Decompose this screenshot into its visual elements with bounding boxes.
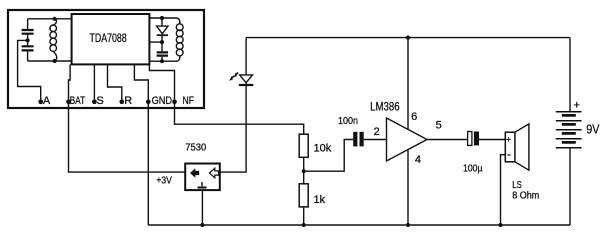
wire speaker to ground <box>501 155 506 225</box>
IC TDA7088 <box>72 14 150 64</box>
wire BAT to regulator <box>69 103 186 173</box>
node R divider <box>302 169 306 173</box>
node 1k ground <box>302 223 306 227</box>
wire pin6 <box>407 38 409 130</box>
node varicap top <box>160 16 164 20</box>
node C3 bottom <box>160 59 164 63</box>
pin A <box>38 99 43 104</box>
wire top-right (IC to right tank) <box>149 17 176 19</box>
node pin4 ground <box>406 223 410 227</box>
svg-text:9V: 9V <box>586 121 599 136</box>
svg-text:100µ: 100µ <box>463 163 483 175</box>
wire regulator to ground rail <box>201 190 203 225</box>
wire pin5 out <box>427 139 468 141</box>
wire 1k to ground <box>303 207 305 225</box>
resistor 1k <box>299 184 308 207</box>
svg-text:R: R <box>124 95 132 107</box>
wire bottom-right <box>149 60 176 62</box>
node regulator ground <box>200 223 204 227</box>
svg-text:6: 6 <box>411 111 417 123</box>
wire top-left (tank top) <box>28 18 72 20</box>
regulator arrow in (outline) <box>209 168 218 178</box>
svg-text:1k: 1k <box>314 194 326 206</box>
svg-text:GND: GND <box>152 95 173 107</box>
svg-text:BAT: BAT <box>70 95 86 107</box>
capacitor C3 <box>161 42 163 51</box>
node L1 bottom <box>53 59 57 63</box>
trimmer capacitor C1 (upper) <box>27 19 29 30</box>
svg-text:+: + <box>506 135 511 145</box>
svg-text:5: 5 <box>436 120 442 132</box>
regulator 7530 <box>185 164 220 191</box>
node top rail / pin6 <box>406 36 410 40</box>
node varicap mid <box>160 40 164 44</box>
wire 100u to speaker <box>479 139 505 141</box>
wire pin4 <box>407 150 409 225</box>
resistor 10k <box>299 134 308 157</box>
pin S <box>92 99 97 104</box>
LED arrow 2 <box>232 76 234 78</box>
svg-text:7530: 7530 <box>185 143 206 154</box>
LED wire <box>220 38 246 173</box>
battery plates <box>556 112 582 148</box>
svg-text:+3V: +3V <box>156 176 172 187</box>
svg-text:A: A <box>43 95 51 107</box>
capacitor 100n <box>353 132 357 147</box>
wire 10k to 1k <box>303 157 305 184</box>
svg-text:8 Ohm: 8 Ohm <box>512 189 539 201</box>
op-amp LM386 <box>387 118 428 161</box>
pin BAT <box>66 99 71 104</box>
coil L2 <box>177 18 180 24</box>
module box (tuner module outline) <box>8 10 204 108</box>
pin stub BAT <box>69 64 71 102</box>
pin R <box>119 99 124 104</box>
wire divider to 100n <box>304 140 354 172</box>
top supply rail <box>246 37 570 39</box>
node between C1/C2 <box>26 38 30 42</box>
node speaker ground <box>498 223 502 227</box>
wire NF to 10k <box>175 103 304 135</box>
wire mid-right (IC to varicap node) <box>149 41 162 43</box>
svg-text:10k: 10k <box>314 143 332 155</box>
speaker - <box>507 154 510 156</box>
svg-text:NF: NF <box>183 95 195 107</box>
svg-text:TDA7088: TDA7088 <box>90 33 127 45</box>
capacitor 100u (electrolytic) <box>468 132 472 146</box>
coil L1 <box>54 19 57 25</box>
trimmer capacitor C2 (lower) <box>27 34 29 47</box>
wire GND down <box>147 103 149 226</box>
LED D2 <box>240 75 253 83</box>
pin stub GND <box>134 64 148 102</box>
pin stub S <box>93 64 95 102</box>
pin GND <box>146 99 151 104</box>
node L1 top <box>53 17 57 21</box>
svg-text:LM386: LM386 <box>370 102 400 114</box>
wire tap to pin A <box>18 40 41 102</box>
svg-text:100n: 100n <box>338 115 358 127</box>
battery 9V <box>569 38 571 112</box>
svg-text:S: S <box>96 95 103 107</box>
regulator ground tab <box>201 182 203 186</box>
svg-text:2: 2 <box>374 126 380 138</box>
pin stub R <box>108 64 122 102</box>
bottom ground rail <box>148 224 570 226</box>
LED arrow 1 <box>236 72 238 74</box>
wire 100n to pin2 <box>364 139 387 141</box>
wire bottom-left (tank bottom) <box>28 60 72 62</box>
pin NF <box>172 99 177 104</box>
pin stub NF <box>149 64 174 102</box>
varicap diode D1 <box>161 18 163 26</box>
svg-text:4: 4 <box>415 154 421 166</box>
svg-text:+: + <box>574 100 580 112</box>
loudspeaker LS <box>505 132 515 162</box>
regulator arrow out (filled) <box>190 168 199 178</box>
